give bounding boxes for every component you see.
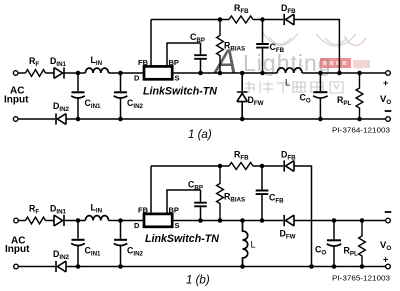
resistor R_PL (a) <box>356 73 363 119</box>
wire: D_FW to output terminal (b) <box>294 220 386 222</box>
wire: top rail FB to R_FB (b) <box>151 165 229 167</box>
svg-text:D: D <box>134 74 140 83</box>
capacitor C_FB (b) leads <box>261 166 263 221</box>
resistor R_PL (b) <box>359 221 366 267</box>
diode D_IN1 <box>54 67 64 78</box>
wire: FB pin to top rail (b) <box>150 166 152 214</box>
inductor L_IN (b) <box>85 216 108 221</box>
junction: C_IN2 top node (b) <box>118 218 123 223</box>
capacitor C_BP plates <box>194 55 207 59</box>
svg-text:FB: FB <box>138 58 149 67</box>
capacitor C_IN1 (b) plates <box>72 239 85 241</box>
svg-text:LinkSwitch-TN: LinkSwitch-TN <box>143 86 218 98</box>
junction: D_FB bottom node (b) <box>309 264 314 269</box>
wire: R_FB to D_FB <box>253 19 283 21</box>
capacitor C_BP (b) plates <box>194 203 207 207</box>
svg-text:Input: Input <box>5 244 30 255</box>
junction: R_PL top node (b) <box>360 218 365 223</box>
junction: R_BIAS top node (a) <box>218 17 223 22</box>
junction: C_IN2 top node (a) <box>118 71 123 76</box>
svg-text:Input: Input <box>4 95 29 106</box>
junction: C_IN2 bottom node (b) <box>118 264 123 269</box>
capacitor C_IN2 (b) leads <box>120 221 122 267</box>
junction: R_PL bottom node (b) <box>360 264 365 269</box>
wire: bottom rail input to D_IN2 <box>18 118 55 120</box>
junction: C_IN1 bottom node (a) <box>76 117 81 122</box>
wire: FB pin to top rail <box>150 20 152 67</box>
diode D_IN2 <box>56 113 66 124</box>
svg-text:L: L <box>285 78 290 88</box>
AC input terminal top (a) <box>13 71 18 76</box>
capacitor C_IN2 leads <box>120 73 122 119</box>
wire: D_IN1 to L_IN <box>64 72 85 74</box>
watermark arcs left set <box>262 32 298 45</box>
junction: R_PL top node (a) <box>357 71 362 76</box>
output terminal minus (a) <box>386 117 391 122</box>
capacitor C_O (a) plates <box>313 91 327 93</box>
junction: C_O bottom node (a) <box>318 117 323 122</box>
wire: S pin rail to D_FW (b) <box>172 220 283 222</box>
diode D_FW (b) <box>284 215 294 226</box>
capacitor C_FB (a) leads <box>262 20 264 74</box>
resistor R_FB (b) <box>229 163 253 170</box>
wire: bottom rail D_IN2 to output <box>66 118 386 120</box>
capacitor C_BP (b) leads <box>200 190 202 221</box>
junction: C_O bottom node (b) <box>332 264 337 269</box>
resistor R_BIAS (b) <box>217 166 224 221</box>
wire: L_IN to D pin <box>109 72 145 74</box>
svg-text:D: D <box>134 221 140 230</box>
capacitor C_O (b) leads <box>333 221 335 267</box>
svg-text:S: S <box>175 221 180 230</box>
AC input terminal bottom (a) <box>13 117 18 122</box>
wire: input to R_F (b) <box>18 220 25 222</box>
inductor L_IN <box>85 68 108 73</box>
junction: C_FB top node (a) <box>260 17 265 22</box>
svg-text:1 (a): 1 (a) <box>188 129 212 141</box>
junction: C_FB bottom node (a) <box>260 71 265 76</box>
svg-text:+: + <box>383 78 388 88</box>
junction: C_FB top node (b) <box>260 164 265 169</box>
op IC LinkSwitch-TN U1 (a) body <box>144 66 172 79</box>
junction: R_BIAS bottom node (a) <box>218 71 223 76</box>
svg-text:L: L <box>251 240 256 250</box>
junction: C_IN1 bottom node (b) <box>76 264 81 269</box>
junction: D_FW bottom node (a) <box>240 117 245 122</box>
inductor L (a) <box>277 68 302 73</box>
svg-text:LinkSwitch-TN: LinkSwitch-TN <box>145 233 220 245</box>
wire: bottom rail input to D_IN2 (b) <box>18 266 55 268</box>
wire: L_IN to D pin (b) <box>109 220 145 222</box>
capacitor C_IN1 plates <box>72 91 85 93</box>
wire: S pin rail to L <box>172 72 277 74</box>
svg-text:+: + <box>383 255 388 265</box>
junction: C_FB bottom node (b) <box>260 218 265 223</box>
capacitor C_IN1 (b) leads <box>77 221 79 267</box>
svg-text:BP: BP <box>169 205 179 214</box>
junction: C_BP bottom node (b) <box>198 218 203 223</box>
svg-text:BP: BP <box>169 58 179 67</box>
capacitor C_BP leads <box>200 43 202 73</box>
wire: L to output terminal <box>302 72 386 74</box>
resistor R_BIAS (a) <box>217 20 224 74</box>
svg-text:1 (b): 1 (b) <box>186 275 210 287</box>
capacitor C_FB (b) plates <box>256 191 269 195</box>
AC input terminal bottom (b) <box>14 264 19 269</box>
capacitor C_O (a) leads <box>319 73 321 119</box>
minus sign mark (a) <box>385 110 392 112</box>
junction: C_IN1 top node (b) <box>76 218 81 223</box>
watermark red box <box>320 58 351 68</box>
junction: C_BP bottom node (a) <box>198 71 203 76</box>
wire: bottom rail D_IN2 to output (b) <box>66 266 386 268</box>
resistor R_FB (a) <box>229 16 253 23</box>
resistor R_F <box>26 70 46 77</box>
wire: D_FB corner down to bottom rail (b) <box>294 166 312 267</box>
wire: input to R_F <box>18 72 26 74</box>
junction: D_FB feedback node (a) <box>337 71 342 76</box>
wire: R_F to D_IN1 (b) <box>46 220 55 222</box>
output terminal plus (b) <box>386 264 391 269</box>
wire: BP pin to C_BP (b) <box>167 190 201 214</box>
diode D_FW (a) <box>237 73 248 119</box>
capacitor C_IN2 plates <box>114 91 127 93</box>
svg-text:PI-3764-121003: PI-3764-121003 <box>332 126 390 135</box>
junction: R_BIAS top node (b) <box>218 164 223 169</box>
output terminal minus (b) <box>386 218 391 223</box>
watermark chinese glyph row <box>242 81 343 93</box>
junction: L bottom node (b) <box>240 264 245 269</box>
junction: R_BIAS bottom node (b) <box>218 218 223 223</box>
diode D_IN1 (b) <box>54 215 64 226</box>
capacitor C_IN1 leads <box>77 73 79 119</box>
wire: top rail FB to R_FB <box>151 19 229 21</box>
AC input terminal top (b) <box>14 218 19 223</box>
wire: D_IN1 to L_IN (b) <box>64 220 85 222</box>
junction: R_PL bottom node (a) <box>357 117 362 122</box>
wire: BP pin to C_BP <box>167 43 201 66</box>
svg-text:S: S <box>175 74 180 83</box>
resistor R_F (b) <box>26 217 46 224</box>
watermark arcs right set <box>316 34 366 46</box>
junction: D_FW top node (a) <box>240 71 245 76</box>
op IC LinkSwitch-TN U1 (b) body <box>144 214 172 227</box>
wire: R_FB to D_FB (b) <box>253 165 283 167</box>
diode D_FB (a) <box>284 14 294 25</box>
output terminal plus (a) <box>386 71 391 76</box>
inductor L (b) <box>243 221 248 267</box>
junction: C_IN2 bottom node (a) <box>118 117 123 122</box>
junction: C_O top node (a) <box>318 71 323 76</box>
wire: R_F to D_IN1 <box>46 72 55 74</box>
junction: L top node (b) <box>240 218 245 223</box>
capacitor C_O (b) plates <box>327 239 341 241</box>
diode D_FB (b) <box>284 160 294 171</box>
capacitor C_FB (a) plates <box>256 44 269 48</box>
diode D_IN2 (b) <box>56 261 66 272</box>
junction: C_IN1 top node (a) <box>76 71 81 76</box>
junction: C_O top node (b) <box>332 218 337 223</box>
svg-text:PI-3765-121003: PI-3765-121003 <box>332 274 390 283</box>
wire: D_FB to corner down to S rail <box>294 20 339 74</box>
capacitor C_IN2 (b) plates <box>114 239 127 241</box>
minus sign mark (b) <box>385 211 392 213</box>
svg-text:FB: FB <box>138 205 149 214</box>
